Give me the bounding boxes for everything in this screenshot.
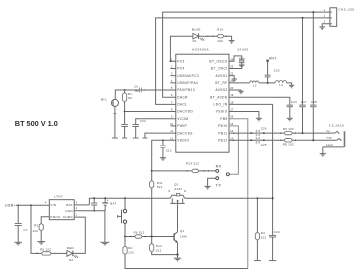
svg-text:10: 10 bbox=[170, 122, 173, 126]
svg-text:BT_OSCO: BT_OSCO bbox=[209, 59, 227, 63]
svg-text:13: 13 bbox=[230, 136, 233, 140]
svg-text:DACVDD: DACVDD bbox=[177, 110, 193, 114]
svg-text:LTH7: LTH7 bbox=[54, 195, 62, 199]
svg-text:L2: L2 bbox=[253, 83, 257, 87]
svg-text:C24: C24 bbox=[274, 230, 280, 234]
svg-text:2: 2 bbox=[76, 206, 78, 210]
svg-text:102: 102 bbox=[33, 229, 39, 233]
svg-text:shell: shell bbox=[326, 143, 333, 147]
svg-text:NC: NC bbox=[135, 89, 140, 93]
svg-text:C23: C23 bbox=[291, 100, 297, 104]
svg-text:102: 102 bbox=[217, 39, 223, 43]
svg-text:C26: C26 bbox=[261, 127, 267, 131]
svg-text:RED: RED bbox=[67, 246, 74, 250]
svg-text:Q1: Q1 bbox=[180, 229, 185, 233]
svg-text:2: 2 bbox=[324, 14, 326, 18]
svg-text:DACVSS: DACVSS bbox=[177, 131, 193, 135]
svg-text:103: 103 bbox=[128, 250, 134, 254]
svg-text:VIN: VIN bbox=[50, 203, 56, 207]
svg-text:BT 500 V 1.0: BT 500 V 1.0 bbox=[15, 119, 58, 128]
svg-text:3: 3 bbox=[324, 20, 326, 24]
svg-text:A19T: A19T bbox=[174, 187, 182, 191]
svg-text:R12: R12 bbox=[156, 244, 162, 248]
svg-text:PB11: PB11 bbox=[218, 131, 227, 135]
svg-text:VCOM: VCOM bbox=[177, 117, 188, 121]
svg-text:16: 16 bbox=[230, 115, 233, 119]
svg-text:24: 24 bbox=[230, 57, 233, 61]
svg-text:512: 512 bbox=[156, 248, 162, 252]
svg-text:C25: C25 bbox=[261, 143, 267, 147]
svg-text:C28: C28 bbox=[311, 100, 317, 104]
svg-text:23: 23 bbox=[230, 64, 233, 68]
svg-text:C6: C6 bbox=[134, 85, 138, 89]
svg-text:USB+: USB+ bbox=[5, 204, 16, 208]
svg-text:512: 512 bbox=[261, 236, 267, 240]
svg-text:1: 1 bbox=[324, 8, 326, 12]
svg-text:C7: C7 bbox=[23, 228, 27, 232]
svg-text:D: D bbox=[184, 189, 186, 193]
svg-text:CHRG: CHRG bbox=[63, 215, 73, 219]
svg-text:+: + bbox=[107, 199, 109, 203]
svg-text:PC4: PC4 bbox=[177, 67, 184, 71]
svg-text:GND: GND bbox=[65, 209, 73, 213]
svg-text:15: 15 bbox=[230, 122, 233, 126]
svg-text:S: S bbox=[168, 189, 170, 193]
svg-text:C27: C27 bbox=[301, 100, 307, 104]
svg-text:D1: D1 bbox=[193, 39, 197, 43]
svg-text:BT_OSCI: BT_OSCI bbox=[211, 67, 228, 71]
svg-text:ANT: ANT bbox=[269, 56, 277, 60]
svg-text:VDDIO: VDDIO bbox=[177, 138, 189, 142]
svg-text:DACR: DACR bbox=[177, 95, 188, 99]
svg-text:Q2: Q2 bbox=[174, 182, 179, 186]
svg-text:AVSS2: AVSS2 bbox=[215, 88, 227, 92]
svg-text:D2: D2 bbox=[69, 258, 73, 262]
svg-text:4: 4 bbox=[45, 201, 47, 205]
svg-text:AVSS1: AVSS1 bbox=[215, 74, 227, 78]
svg-text:TX: TX bbox=[216, 183, 222, 188]
svg-text:R6 512: R6 512 bbox=[134, 230, 145, 234]
svg-text:R5 122: R5 122 bbox=[40, 247, 51, 251]
svg-text:L4: L4 bbox=[279, 83, 283, 87]
svg-text:ring: ring bbox=[326, 136, 332, 140]
svg-text:DACL: DACL bbox=[177, 103, 187, 107]
svg-text:LDO_IN: LDO_IN bbox=[214, 103, 228, 107]
svg-text:512: 512 bbox=[157, 185, 163, 189]
svg-text:PC6: PC6 bbox=[177, 59, 184, 63]
svg-text:18: 18 bbox=[230, 100, 233, 104]
svg-text:NC: NC bbox=[128, 96, 133, 100]
svg-text:C20: C20 bbox=[274, 69, 280, 73]
svg-text:3: 3 bbox=[76, 201, 78, 205]
svg-text:14: 14 bbox=[230, 129, 233, 133]
svg-text:12: 12 bbox=[170, 136, 173, 140]
svg-text:tip: tip bbox=[326, 129, 330, 133]
svg-text:BT_AVDD: BT_AVDD bbox=[210, 95, 228, 99]
svg-text:R9 103: R9 103 bbox=[283, 127, 294, 131]
svg-text:PB12: PB12 bbox=[218, 138, 227, 142]
svg-text:PB9: PB9 bbox=[220, 117, 227, 121]
svg-text:3.5_JACK: 3.5_JACK bbox=[329, 123, 345, 127]
svg-text:17: 17 bbox=[230, 108, 233, 112]
svg-text:R13 512: R13 512 bbox=[186, 161, 199, 165]
svg-text:1AM: 1AM bbox=[180, 235, 187, 239]
svg-text:R8 103: R8 103 bbox=[283, 142, 294, 146]
svg-text:20: 20 bbox=[230, 86, 233, 90]
svg-text:PROG: PROG bbox=[50, 215, 60, 219]
svg-text:BLUE: BLUE bbox=[192, 27, 201, 31]
svg-text:PB10: PB10 bbox=[218, 124, 227, 128]
svg-text:1: 1 bbox=[76, 212, 78, 216]
svg-text:AC6905A: AC6905A bbox=[192, 48, 209, 52]
svg-text:C22: C22 bbox=[140, 119, 146, 123]
svg-text:24.000: 24.000 bbox=[237, 48, 248, 52]
svg-text:PA3/PB13: PA3/PB13 bbox=[177, 88, 195, 92]
svg-text:R10: R10 bbox=[217, 28, 223, 32]
svg-text:BAT: BAT bbox=[110, 201, 116, 205]
svg-text:19: 19 bbox=[230, 93, 233, 97]
svg-text:BT_RF: BT_RF bbox=[215, 81, 227, 85]
svg-text:BAT: BAT bbox=[66, 203, 73, 207]
svg-text:PWIP: PWIP bbox=[177, 124, 187, 128]
svg-text:R3: R3 bbox=[34, 223, 38, 227]
svg-text:RX: RX bbox=[216, 164, 222, 169]
svg-text:USB0M/PC3: USB0M/PC3 bbox=[177, 74, 199, 78]
svg-text:R4: R4 bbox=[261, 231, 265, 235]
svg-text:VSSIO: VSSIO bbox=[216, 110, 228, 114]
svg-text:CN3_200: CN3_200 bbox=[338, 7, 354, 11]
svg-text:USB0P/PA4: USB0P/PA4 bbox=[177, 81, 198, 85]
svg-text:MIC: MIC bbox=[101, 98, 107, 102]
svg-text:C12: C12 bbox=[166, 149, 172, 153]
svg-text:22: 22 bbox=[230, 72, 233, 76]
